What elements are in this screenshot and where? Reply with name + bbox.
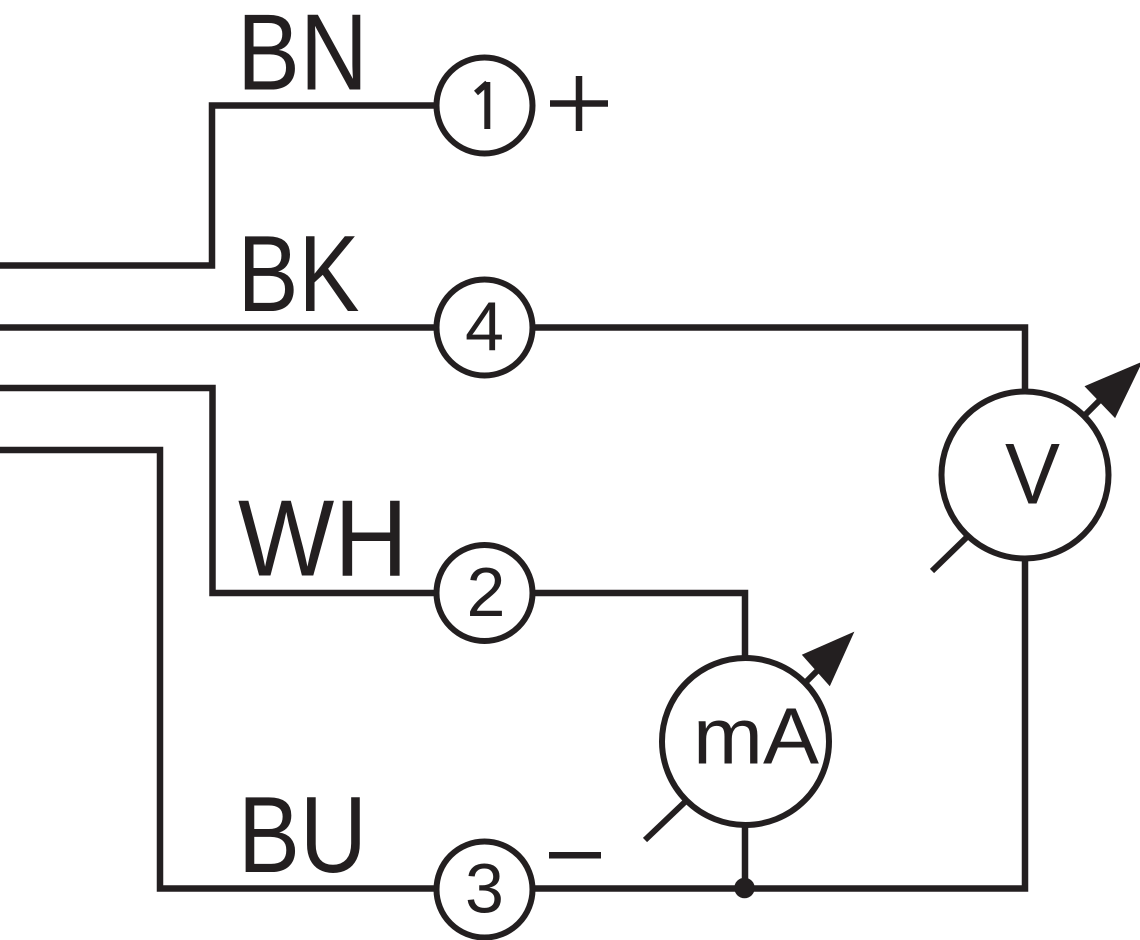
milliammeter M1 arrowhead — [802, 632, 855, 687]
voltmeter V1 circle — [942, 392, 1109, 559]
svg-text:BU: BU — [238, 774, 367, 896]
svg-text:V: V — [1005, 427, 1060, 523]
voltmeter V1 needle tail — [932, 537, 967, 571]
wire BK (black lead to pin 4 and on to voltmeter) — [0, 328, 1025, 476]
terminal circle pin 4 — [437, 280, 533, 376]
wire BN (brown lead, left stub up to pin 1) — [0, 106, 485, 266]
pin number 1 — [476, 82, 487, 129]
milliammeter M1 needle tail — [645, 801, 686, 840]
svg-text:3: 3 — [465, 850, 504, 928]
milliammeter M1 needle shaft — [803, 661, 827, 685]
plus sign (+) — [550, 76, 608, 131]
svg-text:BK: BK — [238, 213, 360, 335]
milliammeter M1 circle — [662, 658, 829, 825]
wire WH (white lead to pin 2 and down to milliammeter) — [0, 388, 745, 889]
wire BU (blue lead to pin 3, bottom rail to voltmeter) — [0, 450, 1025, 889]
voltmeter V1 arrowhead — [1085, 362, 1140, 419]
voltmeter V1 needle shaft — [1082, 394, 1106, 418]
terminal circle pin 1 — [437, 58, 533, 154]
svg-text:2: 2 — [467, 553, 506, 631]
minus sign (-) — [549, 852, 601, 859]
svg-text:mA: mA — [693, 692, 820, 781]
svg-text:BN: BN — [237, 0, 368, 114]
svg-text:WH: WH — [238, 478, 408, 600]
junction node (mA to bottom rail) — [734, 878, 755, 899]
terminal circle pin 2 — [437, 545, 533, 641]
svg-text:4: 4 — [465, 288, 504, 366]
terminal circle pin 3 — [437, 842, 533, 938]
